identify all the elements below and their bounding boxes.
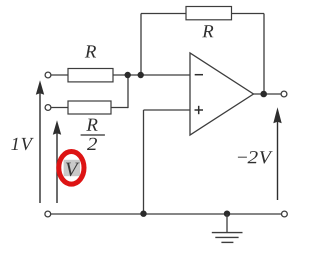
annotation red ellipse — [59, 152, 84, 185]
wire feedback left vertical — [140, 14, 142, 76]
wire bottom rail — [51, 213, 281, 215]
node bottom junction dot (plus wire) — [140, 211, 146, 217]
label 1 V — [11, 138, 33, 150]
wire R1 to op-amp minus — [113, 74, 190, 76]
wire input1 to R1 — [51, 74, 68, 76]
source arrow 1V — [36, 80, 44, 203]
resistor R1 — [68, 69, 113, 82]
node output junction dot — [260, 91, 267, 98]
highlight box V — [64, 160, 81, 176]
node A junction dot — [125, 72, 131, 78]
wire top feedback left segment — [141, 13, 186, 15]
value label R/2 fraction — [81, 119, 105, 150]
terminal input 2 — [45, 105, 51, 111]
node B junction dot (feedback tap) — [138, 72, 144, 78]
wire input2 to R2 — [51, 107, 68, 109]
resistor R feedback — [186, 7, 232, 20]
wire R2 right — [111, 107, 128, 109]
arrow -2V output — [273, 107, 281, 200]
wire top feedback right segment — [232, 13, 265, 15]
wire node A down to R2 row — [127, 75, 129, 108]
wire op-amp plus input — [144, 109, 191, 111]
terminal input 1 — [45, 72, 51, 78]
wire op-amp output — [254, 93, 282, 95]
node bottom junction dot (ground) — [224, 211, 230, 217]
terminal output — [281, 91, 287, 97]
value label R (feedback) — [202, 25, 213, 37]
wire feedback right vertical — [263, 14, 265, 95]
value label R (R1) — [85, 45, 96, 57]
ground — [212, 214, 243, 242]
terminal bottom right — [282, 211, 288, 217]
label -2 V — [238, 151, 273, 164]
label V (marked) — [66, 163, 80, 177]
arrow V (marked voltage) — [53, 120, 61, 203]
wire plus input down to ground rail — [143, 110, 145, 214]
terminal bottom left — [45, 211, 51, 217]
op-amp U1 — [190, 53, 254, 135]
resistor R2 (R/2) — [68, 101, 111, 114]
